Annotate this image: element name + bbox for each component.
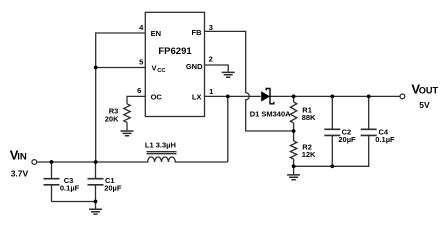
svg-text:LX: LX xyxy=(192,92,202,101)
svg-text:CC: CC xyxy=(157,68,166,74)
svg-text:12K: 12K xyxy=(302,150,316,159)
svg-text:20K: 20K xyxy=(105,115,119,124)
svg-text:2: 2 xyxy=(209,54,213,63)
svg-text:FP6291: FP6291 xyxy=(158,46,192,57)
svg-text:V: V xyxy=(152,64,157,73)
svg-text:EN: EN xyxy=(151,29,161,38)
svg-text:3: 3 xyxy=(209,23,213,32)
svg-text:D1 SM340A: D1 SM340A xyxy=(250,110,291,119)
svg-text:4: 4 xyxy=(139,23,144,32)
svg-text:88K: 88K xyxy=(302,113,316,122)
svg-text:1: 1 xyxy=(209,87,213,96)
svg-text:5: 5 xyxy=(139,57,143,66)
svg-text:L1 3.3µH: L1 3.3µH xyxy=(145,140,176,149)
svg-text:5V: 5V xyxy=(419,100,430,110)
svg-text:OUT: OUT xyxy=(419,86,439,96)
svg-text:6: 6 xyxy=(137,86,141,95)
svg-text:IN: IN xyxy=(17,152,27,163)
svg-text:20µF: 20µF xyxy=(338,135,356,144)
svg-text:OC: OC xyxy=(151,92,163,101)
svg-text:FB: FB xyxy=(192,28,203,37)
svg-text:0.1µF: 0.1µF xyxy=(60,184,80,193)
svg-text:0.1µF: 0.1µF xyxy=(375,135,395,144)
svg-text:3.7V: 3.7V xyxy=(11,169,29,179)
svg-text:20µF: 20µF xyxy=(104,184,122,193)
svg-text:GND: GND xyxy=(186,62,203,71)
